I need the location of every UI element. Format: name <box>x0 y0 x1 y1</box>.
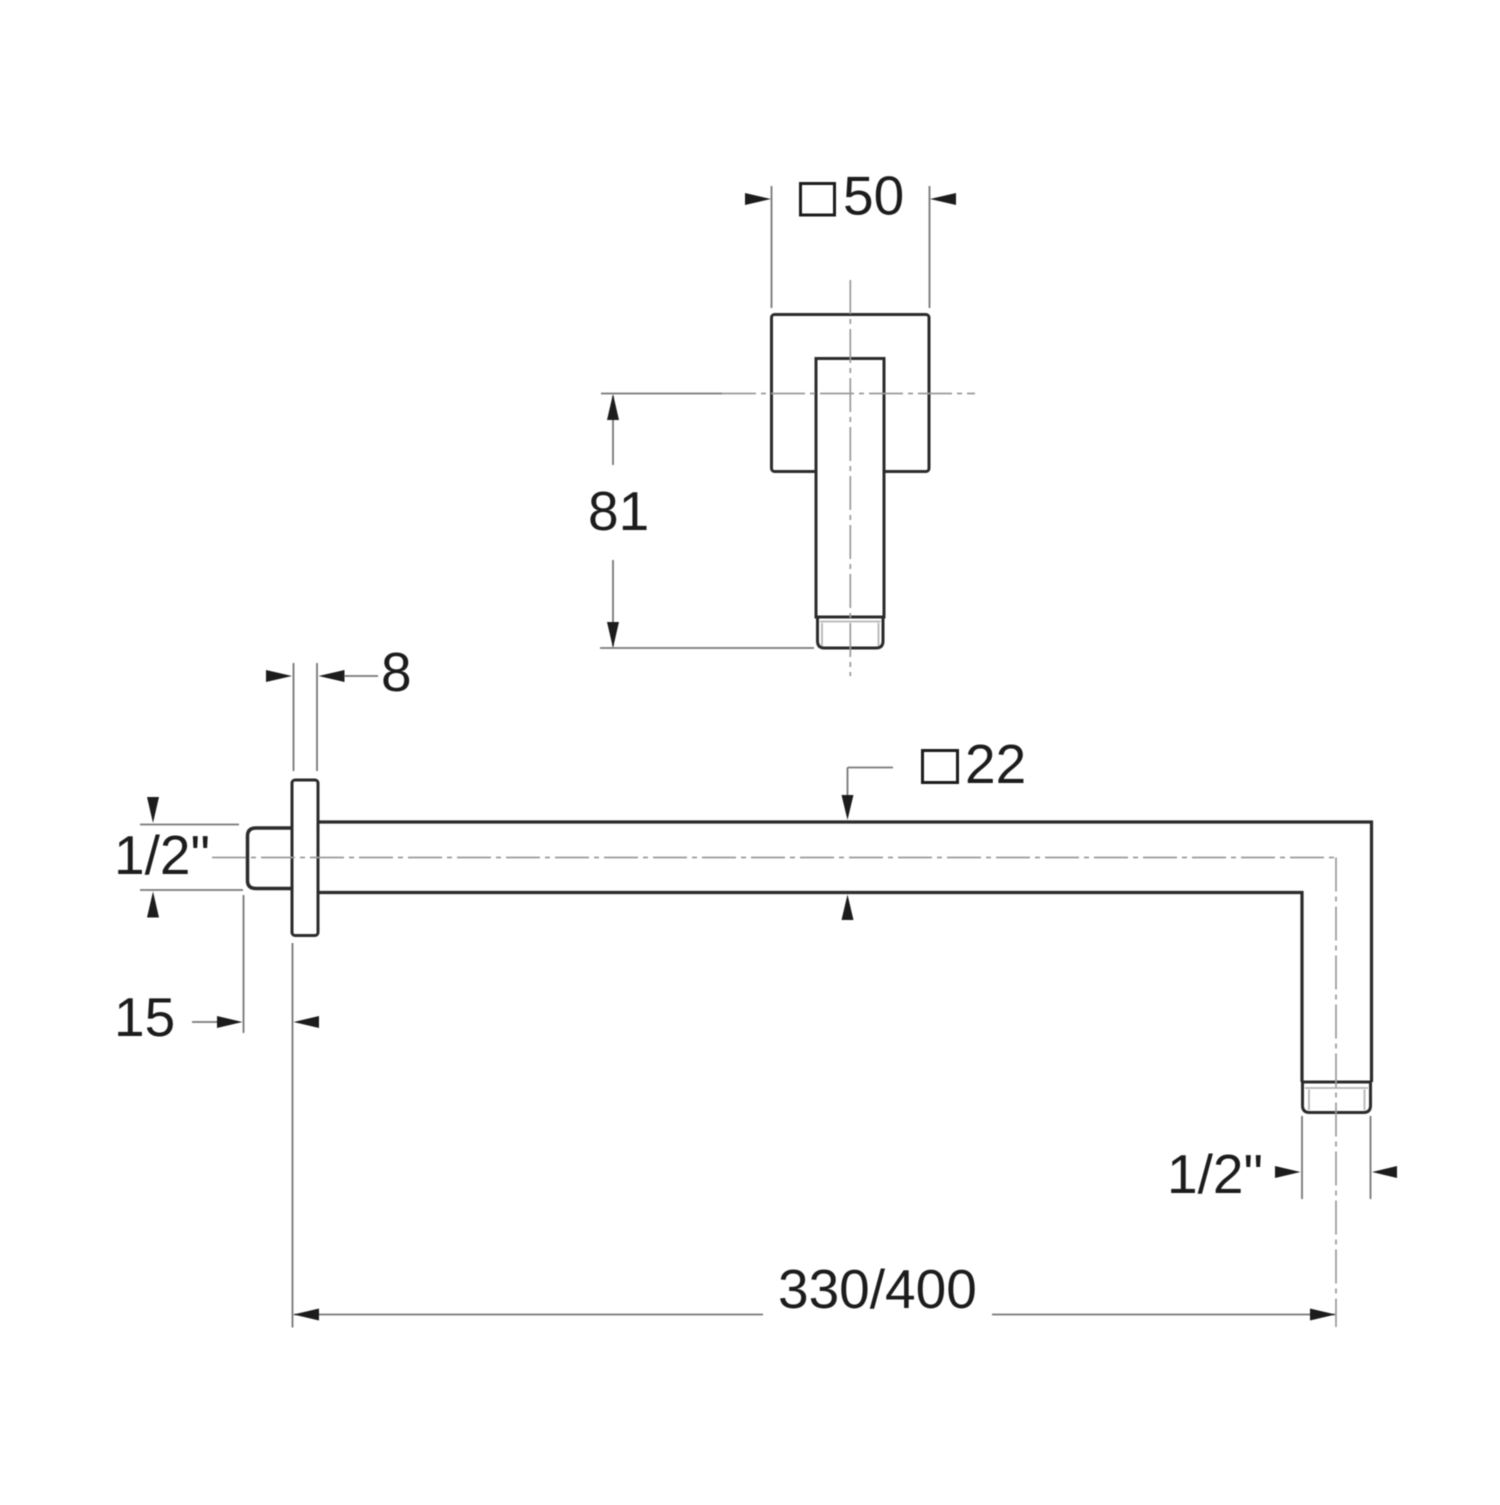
vertical centerline (top view) <box>849 280 851 676</box>
dimension □50 extension line left <box>771 186 773 308</box>
dimension 1/2 bottom extension line left <box>1301 1116 1303 1199</box>
wall face extension line (15 and 330/400) <box>292 943 294 1328</box>
outlet thread nut (side view) <box>1303 1082 1371 1113</box>
square symbol (□50) <box>801 184 835 216</box>
dimension 1/2 left top reference line <box>140 824 239 826</box>
dimension 1/2 left arrow up <box>147 892 159 918</box>
arm outline top edge and right leg outer edge <box>317 822 1372 1082</box>
dimension 15 tail line <box>192 1021 219 1023</box>
dimension □22 arrow down <box>842 795 854 820</box>
wall connector 1/2 inch nipple (side view) <box>248 828 294 889</box>
vertical centerline (down leg) <box>1335 858 1337 1328</box>
dimension 330/400 line left segment <box>294 1314 763 1316</box>
dimension □22 leader vertical <box>847 768 849 801</box>
thread detail lines (top nut) <box>820 621 881 623</box>
svg-text:15: 15 <box>114 986 175 1048</box>
svg-text:81: 81 <box>588 480 649 542</box>
horizontal centerline (top view) <box>601 393 722 395</box>
dimension 81 line lower segment <box>612 560 614 646</box>
svg-text:50: 50 <box>843 165 904 227</box>
dimension 81 bottom reference line <box>600 647 814 649</box>
dimension 8 extension line right <box>316 663 318 771</box>
svg-text:22: 22 <box>965 733 1026 795</box>
svg-text:1/2": 1/2" <box>1167 1143 1263 1205</box>
thread nut (top view) <box>818 617 884 648</box>
dimension 81 arrow up <box>607 394 619 420</box>
dimension 8 arrow left <box>266 670 292 682</box>
square symbol (□22) <box>923 751 958 783</box>
horizontal centerline (side view) <box>212 857 1336 859</box>
dimension 330/400 line right segment <box>992 1314 1335 1316</box>
flange plate square (top view) <box>772 315 930 472</box>
dimension □50 arrow right <box>930 193 956 205</box>
shaft body (top view) <box>816 359 884 618</box>
dimension □22 leader horizontal <box>848 767 894 769</box>
dimension 8 arrow right <box>319 670 345 682</box>
dimension 1/2 bottom arrow right-pointing <box>1275 1166 1301 1178</box>
dimension 330/400 arrow right <box>1310 1309 1336 1321</box>
svg-text:1/2": 1/2" <box>114 824 210 886</box>
dimension 15 arrow right-pointing <box>217 1016 243 1028</box>
dimension 8 tail line <box>344 675 378 677</box>
dimension □50 arrow left <box>745 193 771 205</box>
dimension 330/400 arrow left <box>294 1309 320 1321</box>
svg-text:330/400: 330/400 <box>778 1258 977 1320</box>
dimension 1/2 bottom arrow left-pointing <box>1372 1166 1397 1178</box>
dimension 1/2 left arrow down <box>147 797 159 823</box>
dimension 81 arrow down <box>607 622 619 648</box>
dimension □50 extension line right <box>929 186 931 308</box>
dimension 15 arrow left-pointing <box>294 1016 320 1028</box>
dimension 1/2 bottom extension line right <box>1370 1116 1372 1199</box>
dimension 8 extension line left <box>293 663 295 771</box>
wall flange (side view) <box>292 780 318 936</box>
dimension □22 arrow up <box>842 895 854 921</box>
svg-text:8: 8 <box>381 641 412 703</box>
dimension 1/2 left bottom reference line <box>140 889 243 891</box>
thread detail lines (outlet nut) <box>1305 1087 1368 1089</box>
dimension 15 extension line (connector face) <box>243 895 245 1033</box>
arm outline bottom edge and right leg inner edge <box>317 893 1302 1083</box>
dimension 81 line upper segment <box>612 396 614 465</box>
